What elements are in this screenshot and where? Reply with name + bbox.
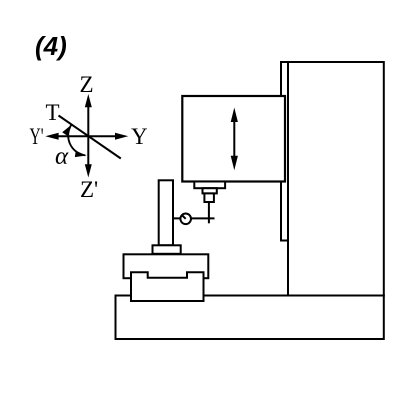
machine base bbox=[116, 296, 384, 340]
dial indicator circle bbox=[180, 214, 191, 225]
double-headed arrow in head bbox=[231, 108, 238, 171]
indicator stand column bbox=[159, 180, 173, 245]
axis Y (horizontal with arrows) bbox=[45, 133, 128, 140]
dial needle bbox=[182, 215, 186, 219]
svg-text:α: α bbox=[55, 143, 69, 170]
machine column bbox=[281, 62, 384, 296]
indicator stand base plate bbox=[153, 245, 181, 254]
saddle block under table bbox=[131, 272, 204, 301]
svg-text:Y': Y' bbox=[30, 124, 44, 149]
spindle step 2 bbox=[203, 188, 217, 193]
spindle head box bbox=[182, 96, 285, 182]
svg-text:T: T bbox=[46, 100, 60, 125]
table top bbox=[124, 254, 209, 278]
angle arc alpha with arrowheads bbox=[68, 124, 85, 155]
tool pin bbox=[208, 202, 210, 223]
indicator arm line bbox=[173, 217, 215, 219]
spindle flange step 1 bbox=[194, 182, 225, 189]
svg-text:Z': Z' bbox=[80, 177, 98, 202]
svg-text:Z: Z bbox=[80, 72, 94, 97]
tool holder step 3 bbox=[204, 193, 214, 202]
line T (diagonal axis) bbox=[59, 116, 121, 159]
svg-text:Y: Y bbox=[131, 124, 148, 149]
svg-text:(4): (4) bbox=[35, 31, 67, 61]
axis Z (vertical up/down with arrows) bbox=[85, 94, 92, 178]
